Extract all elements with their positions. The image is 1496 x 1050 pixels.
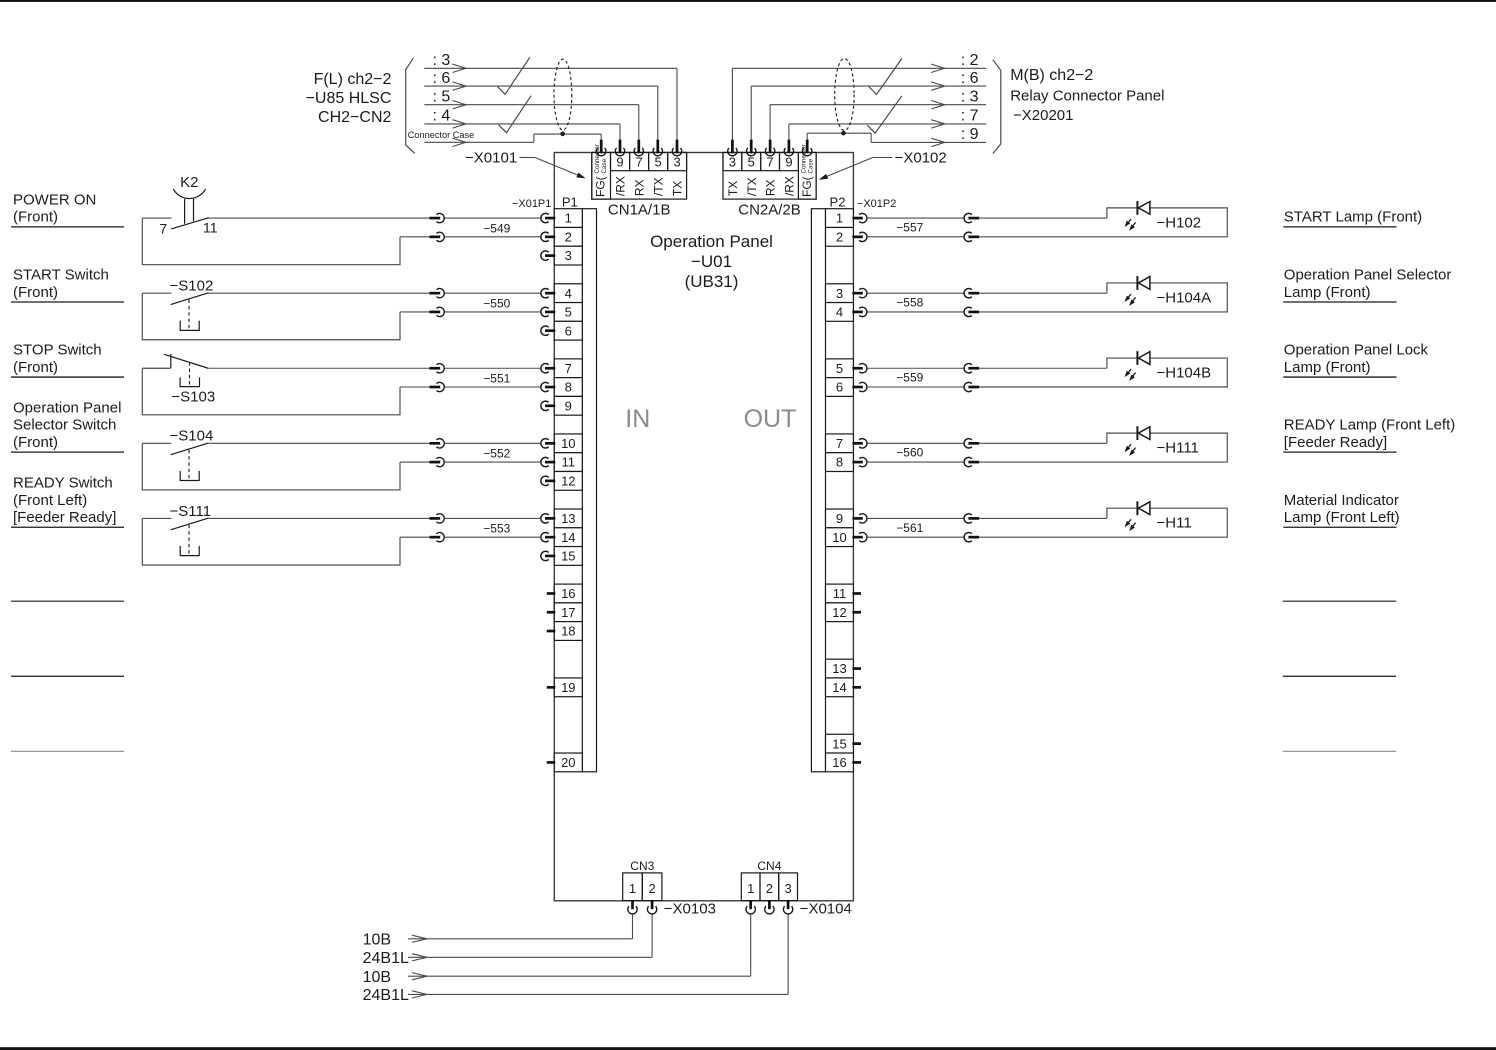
CN1A top pin connector at x=677.0: [672, 140, 681, 156]
svg-text:−S103: −S103: [171, 388, 215, 405]
CN1A top pin connector at x=638.8: [634, 140, 643, 156]
connector CN2A pin 5 cell: [742, 153, 761, 197]
svg-text:CN2A/2B: CN2A/2B: [738, 202, 801, 219]
connector P2 pin 16: [826, 753, 862, 772]
inline connector pair bottom wire row 4: [430, 457, 445, 466]
svg-text:K2: K2: [180, 174, 198, 191]
connector CN1A FG(Connector Case) cell: [592, 144, 611, 199]
svg-text:CN4: CN4: [757, 859, 781, 873]
node label Operation Panel Selector Lamp (right): [1283, 267, 1451, 302]
inline connector pair top wire row 1: [430, 213, 445, 222]
inline connector pair bottom wire row 2: [430, 307, 445, 316]
svg-text:(UB31): (UB31): [685, 272, 739, 291]
svg-text:CH2−CN2: CH2−CN2: [318, 109, 391, 126]
svg-text:−559: −559: [896, 371, 923, 385]
connector P2 pin 2: [826, 227, 867, 246]
lamp circuit wires row 3: [867, 358, 1227, 387]
svg-text:READY Lamp (Front Left): READY Lamp (Front Left): [1284, 417, 1455, 434]
svg-text:11: 11: [833, 586, 847, 601]
inline connector pair top wire lamp row 1: [964, 213, 979, 222]
twisted-pair mark (left pair :3/:6): [497, 57, 530, 94]
op-panel U01 main outline: [554, 153, 853, 901]
svg-text:−560: −560: [896, 446, 923, 460]
connector P1 pin 17: [547, 603, 583, 622]
CN3 pin connector at x=652.1: [647, 900, 656, 914]
svg-text:3: 3: [674, 155, 681, 170]
wire : 7 from CN2A to X20201: [789, 108, 986, 140]
svg-text:3: 3: [836, 286, 843, 301]
inline connector pair top wire row 3: [430, 364, 445, 373]
svg-text:TX: TX: [726, 181, 740, 196]
svg-text:Case: Case: [807, 158, 814, 173]
connector P1 pin 2: [541, 227, 582, 246]
connector P2 pin 4: [826, 303, 867, 322]
svg-text:−557: −557: [896, 220, 923, 234]
op-panel U01 title: [650, 232, 773, 291]
svg-text:RX: RX: [764, 179, 778, 196]
wire 10B to connector at x=750.7: [363, 914, 751, 986]
svg-text:Lamp (Front): Lamp (Front): [1284, 359, 1371, 376]
inline connector pair top wire row 5: [430, 514, 445, 523]
wire : 2 from CN2A to X20201: [732, 52, 986, 140]
svg-text:8: 8: [836, 455, 843, 470]
svg-text:13: 13: [832, 661, 846, 676]
M(B) ch2-2 Relay Connector Panel label: [1010, 67, 1164, 124]
svg-text:−X0103: −X0103: [664, 901, 716, 918]
connector P2 pin 9: [826, 509, 867, 528]
connector P2 pin 5: [826, 359, 867, 378]
svg-text:READY Switch: READY Switch: [13, 475, 113, 492]
svg-text:Relay Connector Panel: Relay Connector Panel: [1010, 87, 1164, 104]
svg-text:16: 16: [561, 586, 575, 601]
svg-text:Material Indicator: Material Indicator: [1284, 492, 1399, 509]
svg-text:5: 5: [565, 305, 572, 320]
svg-text:/TX: /TX: [652, 177, 666, 196]
svg-text:−H11: −H11: [1157, 515, 1192, 532]
svg-text:(Front): (Front): [13, 359, 58, 376]
svg-text:: 9: : 9: [961, 126, 979, 143]
connector P2 pin 11: [826, 584, 862, 603]
node label Operation Panel Selector Switch (left): [11, 400, 124, 453]
connector P2 pin 1: [826, 209, 867, 228]
svg-text:3: 3: [729, 155, 736, 170]
empty label rule left row 7: [11, 675, 124, 677]
svg-text:3: 3: [565, 248, 572, 263]
svg-text:14: 14: [832, 680, 846, 695]
svg-text:16: 16: [832, 755, 846, 770]
connector P1 pin 4: [541, 284, 582, 303]
node label READY Switch (left): [11, 475, 124, 528]
F(L) ch2-2 -U85 HLSC CH2-CN2 source label: [306, 71, 392, 126]
svg-text:−549: −549: [483, 221, 510, 235]
inline connector pair top wire lamp row 5: [964, 514, 979, 523]
connector P1 pin 20: [547, 753, 583, 772]
svg-text:2: 2: [766, 881, 773, 896]
svg-text:: 4: : 4: [433, 108, 451, 125]
svg-text:: 6: : 6: [961, 70, 979, 87]
svg-text:19: 19: [561, 680, 575, 695]
svg-text:−S104: −S104: [170, 428, 214, 445]
svg-text:[Feeder Ready]: [Feeder Ready]: [13, 509, 116, 526]
svg-text:1: 1: [836, 211, 843, 226]
CN2A top pin connector at x=807.2: [803, 140, 812, 156]
svg-text:Operation Panel: Operation Panel: [13, 400, 121, 417]
CN2A top pin connector at x=751.2: [747, 140, 756, 156]
connector P1 body: [582, 209, 596, 772]
connector CN2A FG(Connector Case) cell: [798, 144, 816, 199]
svg-text:STOP Switch: STOP Switch: [13, 342, 102, 359]
svg-text:FG(: FG(: [594, 176, 608, 197]
connector CN2A pin 9 cell: [780, 153, 799, 197]
svg-text:FG(: FG(: [800, 176, 814, 197]
svg-text:POWER ON: POWER ON: [13, 192, 96, 209]
node label Operation Panel Lock Lamp (right): [1283, 342, 1428, 377]
svg-text:: 3: : 3: [961, 89, 979, 106]
svg-text:RX: RX: [633, 179, 647, 196]
inline connector pair bottom wire lamp row 5: [964, 532, 979, 541]
svg-text:−S102: −S102: [170, 278, 214, 295]
inline connector pair top wire lamp row 2: [964, 288, 979, 297]
connector CN1A pin 7 cell: [630, 153, 649, 197]
svg-text:−H111: −H111: [1157, 440, 1199, 457]
svg-text:1: 1: [629, 881, 636, 896]
pushbutton switch S103 (NC): [142, 354, 215, 406]
svg-text:24B1L: 24B1L: [363, 950, 409, 967]
empty label rule left row 6: [11, 600, 124, 602]
bottom page border bar: [0, 1047, 1496, 1050]
svg-text:11: 11: [203, 219, 218, 235]
svg-text:11: 11: [562, 455, 576, 470]
svg-text:12: 12: [561, 473, 575, 488]
connector CN1A pin 9 cell: [611, 153, 630, 197]
connector P1 pin 6: [541, 321, 582, 340]
svg-text:: 7: : 7: [961, 108, 979, 125]
connector P2 pin 8: [826, 453, 867, 472]
connector P1 pin 8: [541, 378, 582, 397]
top page border bar: [0, 0, 1496, 2]
node label READY Lamp (right): [1283, 417, 1455, 452]
svg-text:START Switch: START Switch: [13, 267, 109, 284]
svg-text:4: 4: [565, 286, 572, 301]
left harness brace: [406, 58, 415, 153]
inline connector pair bottom wire lamp row 1: [964, 232, 979, 241]
svg-text:TX: TX: [671, 181, 685, 196]
connector P2 pin 12: [826, 603, 862, 622]
svg-text:2: 2: [836, 229, 843, 244]
connector X0101 label and leader: [465, 150, 586, 179]
svg-text:−U01: −U01: [691, 252, 732, 271]
connector X0102 label and leader: [819, 150, 947, 180]
connector P2 pin 14: [826, 678, 862, 697]
twisted-pair mark (right pair :2/:6): [869, 58, 902, 94]
svg-text:Case: Case: [601, 158, 608, 173]
inline connector pair bottom wire row 3: [430, 382, 445, 391]
wire : 3 from U85 to CN1A: [424, 52, 677, 140]
svg-text:Operation Panel Selector: Operation Panel Selector: [1284, 267, 1452, 284]
svg-text:OUT: OUT: [744, 405, 797, 433]
svg-text:Selector Switch: Selector Switch: [13, 417, 116, 434]
CN3 pin connector at x=632.5: [628, 900, 637, 914]
CN4 pin connector at x=788.1: [783, 900, 792, 914]
wire loop row 3 left: [142, 368, 540, 415]
connector CN1A pin 5 cell: [649, 153, 668, 197]
svg-text:: 2: : 2: [961, 52, 979, 69]
connector P1 pin 9: [541, 396, 582, 415]
svg-text:9: 9: [616, 155, 623, 170]
svg-text:−H102: −H102: [1157, 214, 1202, 231]
connector P2 pin 13: [826, 659, 862, 678]
empty label rule right row 6: [1283, 600, 1396, 602]
node label Material Indicator Lamp (right): [1283, 492, 1399, 527]
CN2A top pin connector at x=788.9: [784, 140, 793, 156]
svg-text:20: 20: [561, 755, 575, 770]
wire 24B1L to connector at x=788.1: [363, 914, 788, 1004]
inline connector pair top wire lamp row 3: [964, 364, 979, 373]
connector P2 body: [811, 209, 825, 772]
CN4 pin connector at x=769.4: [765, 900, 774, 914]
wire : 3 from CN2A to X20201: [770, 89, 986, 140]
inline connector pair bottom wire row 5: [430, 532, 445, 541]
cable shield ellipse (right): [835, 59, 854, 131]
connector CN2A/2B outline: [723, 153, 816, 200]
lamp circuit wires row 2: [867, 283, 1227, 312]
svg-text:7: 7: [766, 155, 773, 170]
connector P1 pin 1: [541, 209, 582, 228]
svg-text:−X20201: −X20201: [1013, 107, 1073, 124]
svg-text:7: 7: [836, 436, 843, 451]
svg-text:CN3: CN3: [630, 859, 654, 873]
lamp circuit wires row 5: [867, 508, 1227, 537]
connector P1 pin 3: [541, 246, 582, 265]
svg-text:CN1A/1B: CN1A/1B: [608, 202, 671, 219]
svg-text:18: 18: [561, 624, 575, 639]
svg-text:START Lamp (Front): START Lamp (Front): [1284, 209, 1422, 226]
svg-text:Connector Case: Connector Case: [408, 130, 474, 140]
pushbutton switch S104 (NO): [142, 428, 213, 481]
inline connector pair bottom wire lamp row 3: [964, 382, 979, 391]
wire 10B to connector at x=632.5: [363, 914, 633, 949]
CN1A top pin connector at x=620.0: [615, 140, 624, 156]
svg-text:9: 9: [785, 155, 792, 170]
wire : 5 from U85 to CN1A: [424, 89, 639, 140]
svg-text:M(B) ch2−2: M(B) ch2−2: [1010, 67, 1093, 84]
LED lamp H104A: [1125, 276, 1212, 306]
wire : 6 from CN2A to X20201: [751, 70, 986, 140]
LED lamp H104B: [1125, 351, 1212, 381]
node label START Switch (left): [11, 267, 124, 302]
svg-text:10: 10: [561, 436, 575, 451]
lamp circuit wires row 1: [867, 208, 1227, 237]
inline connector pair bottom wire row 1: [430, 232, 445, 241]
svg-text:Lamp (Front): Lamp (Front): [1284, 284, 1371, 301]
wire :9 connector case from CN2A FG: [807, 126, 986, 146]
svg-text:Operation Panel Lock: Operation Panel Lock: [1284, 342, 1429, 359]
svg-text:12: 12: [832, 605, 846, 620]
connector P1 pin 11: [541, 453, 582, 472]
LED lamp H102: [1125, 201, 1202, 231]
CN2A top pin connector at x=732.4: [728, 140, 737, 156]
connector CN4: [741, 859, 797, 900]
empty label rule left row 8: [11, 750, 124, 752]
connector CN1A/1B outline: [592, 153, 687, 200]
svg-text:5: 5: [748, 155, 755, 170]
connector P1 pin 14: [541, 528, 582, 547]
shield junction dot (right): [841, 131, 846, 136]
wire loop row 5 left: [142, 518, 540, 565]
CN2A top pin connector at x=770.1: [765, 140, 774, 156]
svg-text:[Feeder Ready]: [Feeder Ready]: [1284, 434, 1387, 451]
wire 24B1L to connector at x=652.1: [363, 914, 652, 967]
empty label rule right row 8: [1283, 750, 1396, 752]
svg-text:−558: −558: [896, 296, 923, 310]
svg-text:F(L) ch2−2: F(L) ch2−2: [314, 71, 392, 88]
shield junction dot (left): [560, 132, 565, 137]
lamp circuit wires row 4: [867, 433, 1227, 462]
svg-text:10B: 10B: [363, 931, 391, 948]
svg-text:9: 9: [836, 511, 843, 526]
wire loop row 4 left: [142, 443, 540, 490]
svg-text:−X01P1: −X01P1: [512, 198, 551, 210]
pushbutton switch S111 (NO): [142, 503, 211, 556]
connector P1 pin 13: [541, 509, 582, 528]
svg-text:−561: −561: [896, 521, 923, 535]
CN4 pin connector at x=750.7: [746, 900, 755, 914]
connector P2 pin 10: [826, 528, 867, 547]
twisted-pair mark (left pair :5/:4): [499, 96, 531, 133]
svg-text:−X0101: −X0101: [465, 150, 517, 167]
svg-text:: 6: : 6: [433, 70, 451, 87]
connector P1 pin 19: [547, 678, 583, 697]
svg-text:3: 3: [784, 881, 791, 896]
svg-text:5: 5: [655, 155, 662, 170]
connector CN2A pin 3 cell: [723, 153, 742, 197]
svg-text:Operation Panel: Operation Panel: [650, 232, 773, 251]
svg-text:7: 7: [159, 220, 167, 236]
connector P1 pin 10: [541, 434, 582, 453]
svg-text:(Front): (Front): [13, 209, 58, 226]
connector P2 pin 7: [826, 434, 867, 453]
svg-text:1: 1: [747, 881, 754, 896]
svg-text:−S111: −S111: [170, 503, 212, 520]
svg-text:7: 7: [635, 155, 642, 170]
svg-text:1: 1: [565, 211, 572, 226]
svg-text:8: 8: [565, 380, 572, 395]
svg-text:13: 13: [561, 511, 575, 526]
svg-text:6: 6: [565, 323, 572, 338]
inline connector pair bottom wire lamp row 2: [964, 307, 979, 316]
CN1A top pin connector at x=601.2: [596, 140, 605, 156]
inline connector pair top wire lamp row 4: [964, 439, 979, 448]
wire : 6 from U85 to CN1A: [424, 70, 658, 140]
svg-text:9: 9: [565, 398, 572, 413]
pushbutton switch S102 (NO): [142, 278, 213, 331]
svg-text:14: 14: [561, 530, 575, 545]
connector CN1A pin 3 cell: [668, 153, 687, 197]
svg-text:: 5: : 5: [433, 89, 451, 106]
node label POWER ON (left): [11, 192, 124, 227]
connector P2 pin 6: [826, 378, 867, 397]
svg-text:4: 4: [836, 305, 843, 320]
svg-text:−550: −550: [483, 296, 510, 310]
svg-text:−553: −553: [483, 522, 510, 536]
svg-text:−X0102: −X0102: [895, 150, 947, 167]
svg-text:/RX: /RX: [614, 176, 628, 196]
svg-text:−551: −551: [483, 371, 510, 385]
empty label rule right row 7: [1283, 675, 1396, 677]
connector P1 pin 7: [541, 359, 582, 378]
svg-text:15: 15: [832, 736, 846, 751]
svg-text:P2: P2: [830, 195, 846, 210]
svg-text:−X0104: −X0104: [800, 901, 852, 918]
connector P1 pin 12: [541, 471, 582, 490]
svg-text:−X01P2: −X01P2: [857, 198, 896, 210]
wire : 4 from U85 to CN1A: [424, 108, 620, 140]
inline connector pair top wire row 2: [430, 288, 445, 297]
inline connector pair bottom wire lamp row 4: [964, 457, 979, 466]
svg-text:6: 6: [836, 380, 843, 395]
svg-text:: 3: : 3: [433, 52, 451, 69]
svg-text:/RX: /RX: [782, 176, 796, 196]
svg-text:−H104A: −H104A: [1157, 289, 1212, 306]
wire Connector Case to CN1A FG: [408, 130, 601, 147]
svg-text:Lamp (Front Left): Lamp (Front Left): [1284, 509, 1400, 526]
twisted-pair mark (right pair :3/:7): [867, 96, 902, 133]
svg-text:/TX: /TX: [745, 177, 759, 196]
svg-text:2: 2: [648, 881, 655, 896]
connector CN2A pin 7 cell: [761, 153, 780, 197]
svg-text:(Front): (Front): [13, 284, 58, 301]
svg-text:15: 15: [561, 549, 575, 564]
inline connector pair top wire row 4: [430, 439, 445, 448]
cable shield ellipse (left): [554, 59, 572, 130]
connector P1 pin 18: [547, 622, 583, 641]
svg-text:(Front): (Front): [13, 434, 58, 451]
node label START Lamp (right): [1283, 209, 1422, 227]
svg-text:−H104B: −H104B: [1157, 364, 1212, 381]
svg-text:10: 10: [832, 530, 846, 545]
svg-text:(Front Left): (Front Left): [13, 492, 87, 509]
connector P1 pin 16: [547, 584, 583, 603]
wire loop row 2 left: [142, 293, 540, 340]
svg-text:−U85 HLSC: −U85 HLSC: [306, 90, 392, 107]
svg-text:5: 5: [836, 361, 843, 376]
connector P2 pin 3: [826, 284, 867, 303]
svg-text:2: 2: [565, 229, 572, 244]
svg-text:17: 17: [561, 605, 575, 620]
svg-text:24B1L: 24B1L: [363, 987, 409, 1004]
right harness brace: [993, 60, 1001, 154]
connector CN3: [623, 859, 662, 900]
svg-text:−552: −552: [483, 447, 510, 461]
svg-text:IN: IN: [625, 405, 650, 433]
CN1A top pin connector at x=657.8: [653, 140, 662, 156]
svg-text:7: 7: [565, 361, 572, 376]
connector P1 pin 5: [541, 303, 582, 322]
svg-text:P1: P1: [562, 195, 578, 210]
relay contact K2: [142, 174, 217, 236]
svg-text:10B: 10B: [363, 969, 391, 986]
connector P2 pin 15: [826, 734, 862, 753]
LED lamp H111: [1125, 426, 1199, 456]
wire loop row 1 left: [142, 218, 540, 265]
node label STOP Switch (left): [11, 342, 124, 377]
connector P1 pin 15: [541, 547, 582, 566]
LED lamp H11: [1125, 501, 1192, 531]
